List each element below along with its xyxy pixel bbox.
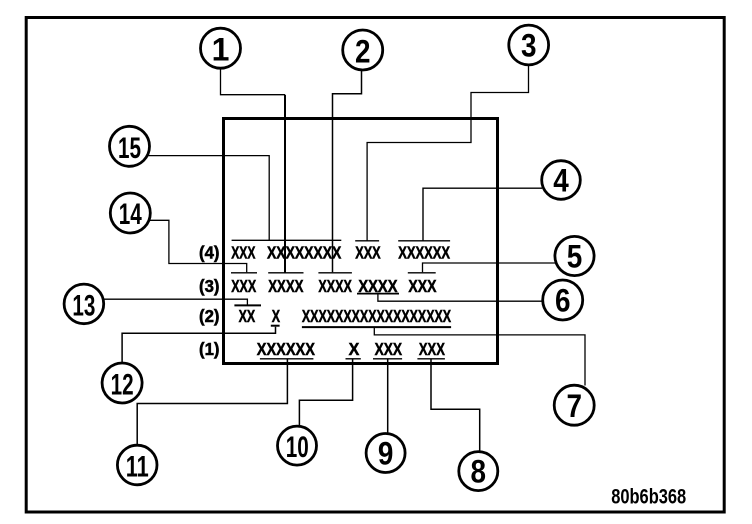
svg-text:X: X <box>272 306 280 326</box>
svg-text:XXX: XXX <box>355 243 381 263</box>
svg-text:XXXX: XXXX <box>358 276 397 296</box>
svg-text:11: 11 <box>126 451 149 484</box>
svg-text:XXXX: XXXX <box>268 276 303 296</box>
svg-text:4: 4 <box>553 163 569 199</box>
svg-text:6: 6 <box>555 283 571 319</box>
svg-text:X: X <box>349 339 360 359</box>
svg-text:XXX: XXX <box>231 243 255 263</box>
svg-text:XX: XX <box>239 306 256 326</box>
svg-text:10: 10 <box>286 431 309 464</box>
svg-text:80b6b368: 80b6b368 <box>611 485 686 509</box>
svg-text:XXX: XXX <box>231 276 256 296</box>
svg-text:XXX: XXX <box>408 276 436 296</box>
svg-text:(4): (4) <box>199 243 220 263</box>
svg-text:XXXXXX: XXXXXX <box>257 339 315 359</box>
svg-text:XXXXXXXX: XXXXXXXX <box>267 243 342 263</box>
svg-text:15: 15 <box>118 132 141 165</box>
svg-text:(2): (2) <box>199 306 220 326</box>
svg-text:8: 8 <box>471 454 487 490</box>
svg-text:XXXXXX: XXXXXX <box>398 243 450 263</box>
svg-text:2: 2 <box>355 33 371 69</box>
svg-text:13: 13 <box>72 290 95 323</box>
svg-text:(3): (3) <box>199 276 220 296</box>
svg-text:XXXXXXXXXXXXXXXXXX: XXXXXXXXXXXXXXXXXX <box>302 306 451 326</box>
svg-text:XXX: XXX <box>375 339 403 359</box>
svg-text:1: 1 <box>212 32 230 68</box>
svg-text:7: 7 <box>566 388 582 424</box>
svg-text:5: 5 <box>567 239 583 275</box>
svg-text:XXX: XXX <box>419 339 445 359</box>
svg-text:XXXX: XXXX <box>318 276 352 296</box>
svg-text:14: 14 <box>119 198 142 231</box>
svg-text:3: 3 <box>521 28 537 64</box>
svg-text:9: 9 <box>378 436 394 472</box>
svg-text:(1): (1) <box>199 339 220 359</box>
svg-text:12: 12 <box>111 369 134 402</box>
